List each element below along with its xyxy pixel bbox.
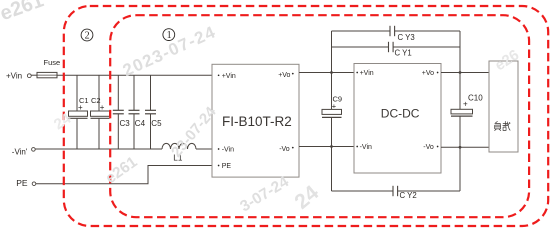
pin +Vin of U1 xyxy=(218,74,220,76)
load label (CJK glyphs drawn as vectors) xyxy=(494,121,510,131)
svg-text:C Y3: C Y3 xyxy=(398,33,415,42)
wire right Y-branch vertical xyxy=(459,31,461,109)
svg-text:-Vo: -Vo xyxy=(279,146,290,153)
inductor L1 xyxy=(162,143,196,149)
svg-text:-Vo: -Vo xyxy=(423,144,434,151)
capacitor C4 xyxy=(133,75,135,110)
svg-text:C Y1: C Y1 xyxy=(395,49,412,58)
svg-text:+: + xyxy=(332,101,337,110)
junction right branch / -rail xyxy=(459,146,462,149)
junction right branch / +rail xyxy=(459,71,462,74)
svg-text:+Vin: +Vin xyxy=(222,73,236,80)
wire U1 +Vo to DC-DC +Vin xyxy=(299,72,354,74)
svg-text:DC-DC: DC-DC xyxy=(381,107,420,121)
pin +Vin of U2 xyxy=(356,72,358,74)
module U2 DC-DC xyxy=(354,64,441,174)
wire +Vin rail fuse to FI module xyxy=(57,74,212,76)
svg-text:-Vin: -Vin xyxy=(360,144,372,151)
svg-text:+: + xyxy=(463,99,468,108)
wire DC-DC +Vo to load xyxy=(441,72,489,74)
capacitor C Y2 xyxy=(392,186,394,196)
pin -Vin of U1 xyxy=(218,148,220,150)
junction left branch / -rail xyxy=(330,145,333,148)
capacitor C3 xyxy=(117,75,119,110)
terminal PE xyxy=(32,182,36,186)
svg-text:2: 2 xyxy=(85,31,90,42)
capacitor C Y1 xyxy=(388,42,390,52)
svg-text:+: + xyxy=(100,103,105,112)
wire +Vin terminal to fuse xyxy=(31,74,37,76)
svg-text:C10: C10 xyxy=(468,94,483,103)
boundary box 1 (inner red dashed) xyxy=(110,15,529,217)
svg-text:Fuse: Fuse xyxy=(44,58,61,67)
label 1 circled xyxy=(163,29,175,41)
svg-text:-Vin: -Vin xyxy=(222,147,234,154)
wire PE run xyxy=(36,166,212,184)
svg-text:C5: C5 xyxy=(151,119,162,128)
svg-text:C4: C4 xyxy=(135,119,146,128)
wire CY1 loop xyxy=(332,46,389,48)
load box xyxy=(489,61,518,152)
wire CY2 loop bottom xyxy=(332,190,394,192)
wire U1 -Vo to DC-DC -Vin xyxy=(299,146,354,148)
pin PE of U1 xyxy=(218,165,220,167)
fuse xyxy=(37,72,57,77)
wire -Vin rail to L1 xyxy=(35,148,162,150)
module U1 FI-B10T-R2 xyxy=(212,64,299,177)
wire CY3 loop top xyxy=(332,30,391,32)
capacitor C9 xyxy=(322,109,342,114)
svg-text:PE: PE xyxy=(222,163,232,170)
svg-text:FI-B10T-R2: FI-B10T-R2 xyxy=(222,114,292,129)
junction left branch / +rail xyxy=(330,71,333,74)
capacitor C10 xyxy=(451,109,473,114)
svg-text:C3: C3 xyxy=(120,119,131,128)
svg-text:+Vin: +Vin xyxy=(360,70,374,77)
capacitor C2 xyxy=(98,75,100,111)
wire L1 to FI module xyxy=(196,148,212,150)
capacitor C1 xyxy=(76,75,78,111)
svg-text:+: + xyxy=(78,103,83,112)
label 2 circled xyxy=(81,29,93,41)
terminal -Vin' xyxy=(32,148,36,152)
capacitor C Y3 xyxy=(389,26,391,36)
svg-text:+Vo: +Vo xyxy=(422,70,434,77)
capacitor C5 xyxy=(150,75,152,110)
boundary box 2 (outer red dashed) xyxy=(64,6,548,226)
svg-text:-Vin': -Vin' xyxy=(12,147,28,156)
svg-text:+Vin: +Vin xyxy=(6,72,22,81)
svg-text:+Vo: +Vo xyxy=(278,72,290,79)
terminal +Vin xyxy=(27,74,31,78)
wire DC-DC -Vo to load xyxy=(441,146,489,148)
wire left Y-branch vertical xyxy=(331,31,333,109)
svg-text:PE: PE xyxy=(16,178,28,188)
svg-text:C Y2: C Y2 xyxy=(400,191,417,200)
pin -Vin of U2 xyxy=(356,146,358,148)
